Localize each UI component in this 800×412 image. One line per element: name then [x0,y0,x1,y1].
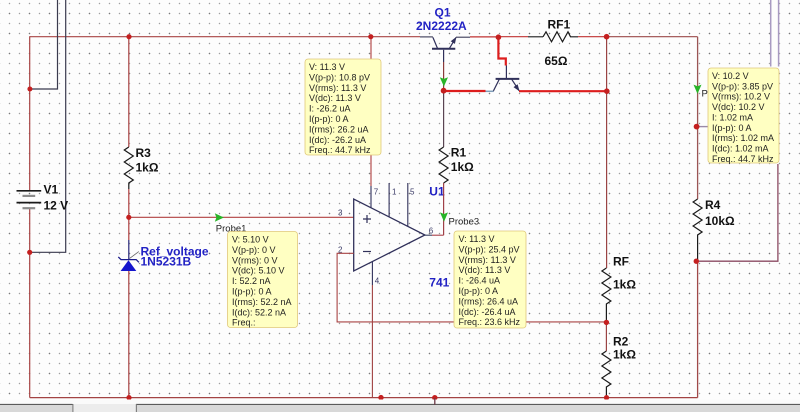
probe info box C (Probe3) [454,231,526,328]
svg-text:1kΩ: 1kΩ [613,348,636,362]
svg-text:I: -26.4 uA: I: -26.4 uA [459,276,501,286]
wire feedback from pin2 down and right to RF/R2 node [337,253,606,322]
svg-text:V: 11.3 V: V: 11.3 V [309,62,345,72]
svg-text:4: 4 [375,277,380,286]
svg-text:V(rms): 10.2 V: V(rms): 10.2 V [712,92,770,102]
svg-text:R2: R2 [613,335,629,349]
wire R4 bottom down to bottom rail corner [697,261,699,397]
svg-text:I(p-p): 0 A: I(p-p): 0 A [459,286,499,296]
zener diode Ref_voltage 1N5231B [118,217,209,397]
wire battery bottom down to bottom rail [29,208,31,398]
svg-text:V(p-p): 0 V: V(p-p): 0 V [232,245,276,255]
svg-text:1kΩ: 1kΩ [613,278,636,292]
svg-text:RF1: RF1 [548,18,571,32]
svg-text:V(dc): 10.2 V: V(dc): 10.2 V [712,102,765,112]
svg-text:I: -26.2 uA: I: -26.2 uA [309,104,351,114]
svg-text:1kΩ: 1kΩ [136,161,159,175]
svg-text:I: 52.2 nA: I: 52.2 nA [232,276,271,286]
probe info box A (top middle) [305,59,381,155]
wire right far vertical from top corner down [697,37,699,199]
svg-text:741: 741 [429,276,449,290]
svg-text:Freq.: 44.7 kHz: Freq.: 44.7 kHz [712,154,774,164]
probe Probe2 green arrow [440,77,448,86]
wire top rail right segment to corner [607,36,698,38]
wire Q1 emitter to junction (498,37) [456,36,470,38]
svg-text:3: 3 [338,209,343,218]
svg-text:Freq.: 44.7 kHz: Freq.: 44.7 kHz [309,145,371,155]
bottom window scrollbar strip [0,400,800,412]
svg-text:R4: R4 [705,198,721,212]
probe info box B (Probe1) [228,232,298,328]
op-amp U1 741 [338,185,450,290]
svg-text:U1: U1 [429,185,445,199]
svg-text:I(p-p): 0 A: I(p-p): 0 A [712,123,752,133]
wire node(129,217) to op-amp pin3 [129,216,354,218]
svg-text:V(p-p): 25.4 pV: V(p-p): 25.4 pV [459,244,520,254]
svg-text:I(rms): 52.2 nA: I(rms): 52.2 nA [232,297,292,307]
resistor R3 1k [124,37,159,218]
svg-text:V: 5.10 V: V: 5.10 V [232,235,269,245]
probe right green arrow [694,85,712,100]
svg-text:I(dc): 52.2 nA: I(dc): 52.2 nA [232,307,286,317]
wire stub at junction (697,127) going right [697,126,709,128]
svg-text:V: 10.2 V: V: 10.2 V [712,71,749,81]
wire dark off-screen branch to node (30,89) [30,0,57,89]
svg-text:I(p-p): 0 A: I(p-p): 0 A [309,114,349,124]
svg-text:V(p-p): 10.8 pV: V(p-p): 10.8 pV [309,72,370,82]
pin 1 stub [388,183,390,217]
svg-text:I(dc): -26.4 uA: I(dc): -26.4 uA [459,307,516,317]
wire right outer loop from R4 bottom node [696,164,778,261]
wire bottom rail [30,397,698,399]
svg-text:R3: R3 [136,146,152,160]
svg-text:12 V: 12 V [44,199,69,213]
resistor R2 1k [602,335,636,398]
svg-text:V(rms): 11.3 V: V(rms): 11.3 V [459,255,516,265]
svg-text:V(rms): 11.3 V: V(rms): 11.3 V [309,83,366,93]
pin 5 stub [407,183,409,226]
svg-text:I(dc): 1.02 mA: I(dc): 1.02 mA [712,143,769,153]
svg-text:1kΩ: 1kΩ [451,160,474,174]
wire node (606,322) to R2 [605,322,607,351]
wire left vertical from top wire to battery [29,36,31,190]
probe info box D (right) [708,68,779,164]
svg-text:R1: R1 [451,146,467,160]
svg-text:6: 6 [429,227,434,236]
wire dark off-screen branch to battery bottom node (30,252) [30,0,65,252]
svg-text:1: 1 [392,188,397,197]
svg-text:Q1: Q1 [435,6,451,20]
resistor RF1 65 ohm [498,18,606,69]
svg-text:10kΩ: 10kΩ [705,214,735,228]
svg-text:I: 1.02 mA: I: 1.02 mA [712,112,753,122]
wire thick red node to Q2 collector [444,90,486,92]
svg-text:V(p-p): 3.85 pV: V(p-p): 3.85 pV [712,81,773,91]
wire op-amp output pin6 stub [425,234,432,236]
wire thick red Q2 emitter to right vertical [519,90,607,92]
svg-text:7: 7 [374,188,379,197]
transistor Q2 (pass transistor) [486,66,520,92]
probe Probe3 green arrow [440,212,479,227]
resistor R4 10k [693,198,735,261]
svg-text:5: 5 [410,188,415,197]
svg-text:I(rms): 26.2 uA: I(rms): 26.2 uA [309,124,369,134]
wire op-amp V- pin4 down to bottom rail [371,262,373,285]
wire right vertical x=606 top to RF [606,37,608,268]
battery V1 12V [17,183,69,213]
svg-text:I(dc): -26.2 uA: I(dc): -26.2 uA [309,135,366,145]
svg-text:V1: V1 [44,183,59,197]
wire op-amp V+ pin7 supply from top rail [370,37,372,186]
transistor Q1 2N2222A [416,6,467,89]
wire light purple off-screen pair top right [770,0,772,67]
wire top horizontal net [30,36,420,38]
svg-text:V(dc): 11.3 V: V(dc): 11.3 V [459,265,511,275]
svg-text:V(dc): 11.3 V: V(dc): 11.3 V [309,93,361,103]
svg-text:V(rms): 0 V: V(rms): 0 V [232,255,278,265]
wire thick red zigzag from top junction to Q2 base [498,37,505,65]
svg-text:I(rms): 26.4 uA: I(rms): 26.4 uA [459,296,519,306]
svg-text:I(p-p): 0 A: I(p-p): 0 A [232,287,272,297]
svg-text:65Ω: 65Ω [545,54,568,68]
probe Probe1 green arrow [215,213,247,234]
svg-text:V: 11.3 V: V: 11.3 V [459,234,495,244]
resistor R1 1k [439,91,474,236]
svg-text:1N5231B: 1N5231B [141,255,192,269]
wire stub below bottom rail at x=435 [434,398,436,405]
svg-text:I(rms): 1.02 mA: I(rms): 1.02 mA [712,133,774,143]
svg-text:Freq.: 23.6 kHz: Freq.: 23.6 kHz [459,317,521,327]
wire top lead into Q1 collector [420,36,433,38]
svg-text:2N2222A: 2N2222A [416,19,467,33]
svg-text:Freq.:: Freq.: [232,318,256,328]
svg-text:RF: RF [613,255,629,269]
resistor RF 1k [602,255,636,323]
svg-text:Probe3: Probe3 [449,217,480,228]
svg-text:V(dc): 5.10 V: V(dc): 5.10 V [232,266,285,276]
